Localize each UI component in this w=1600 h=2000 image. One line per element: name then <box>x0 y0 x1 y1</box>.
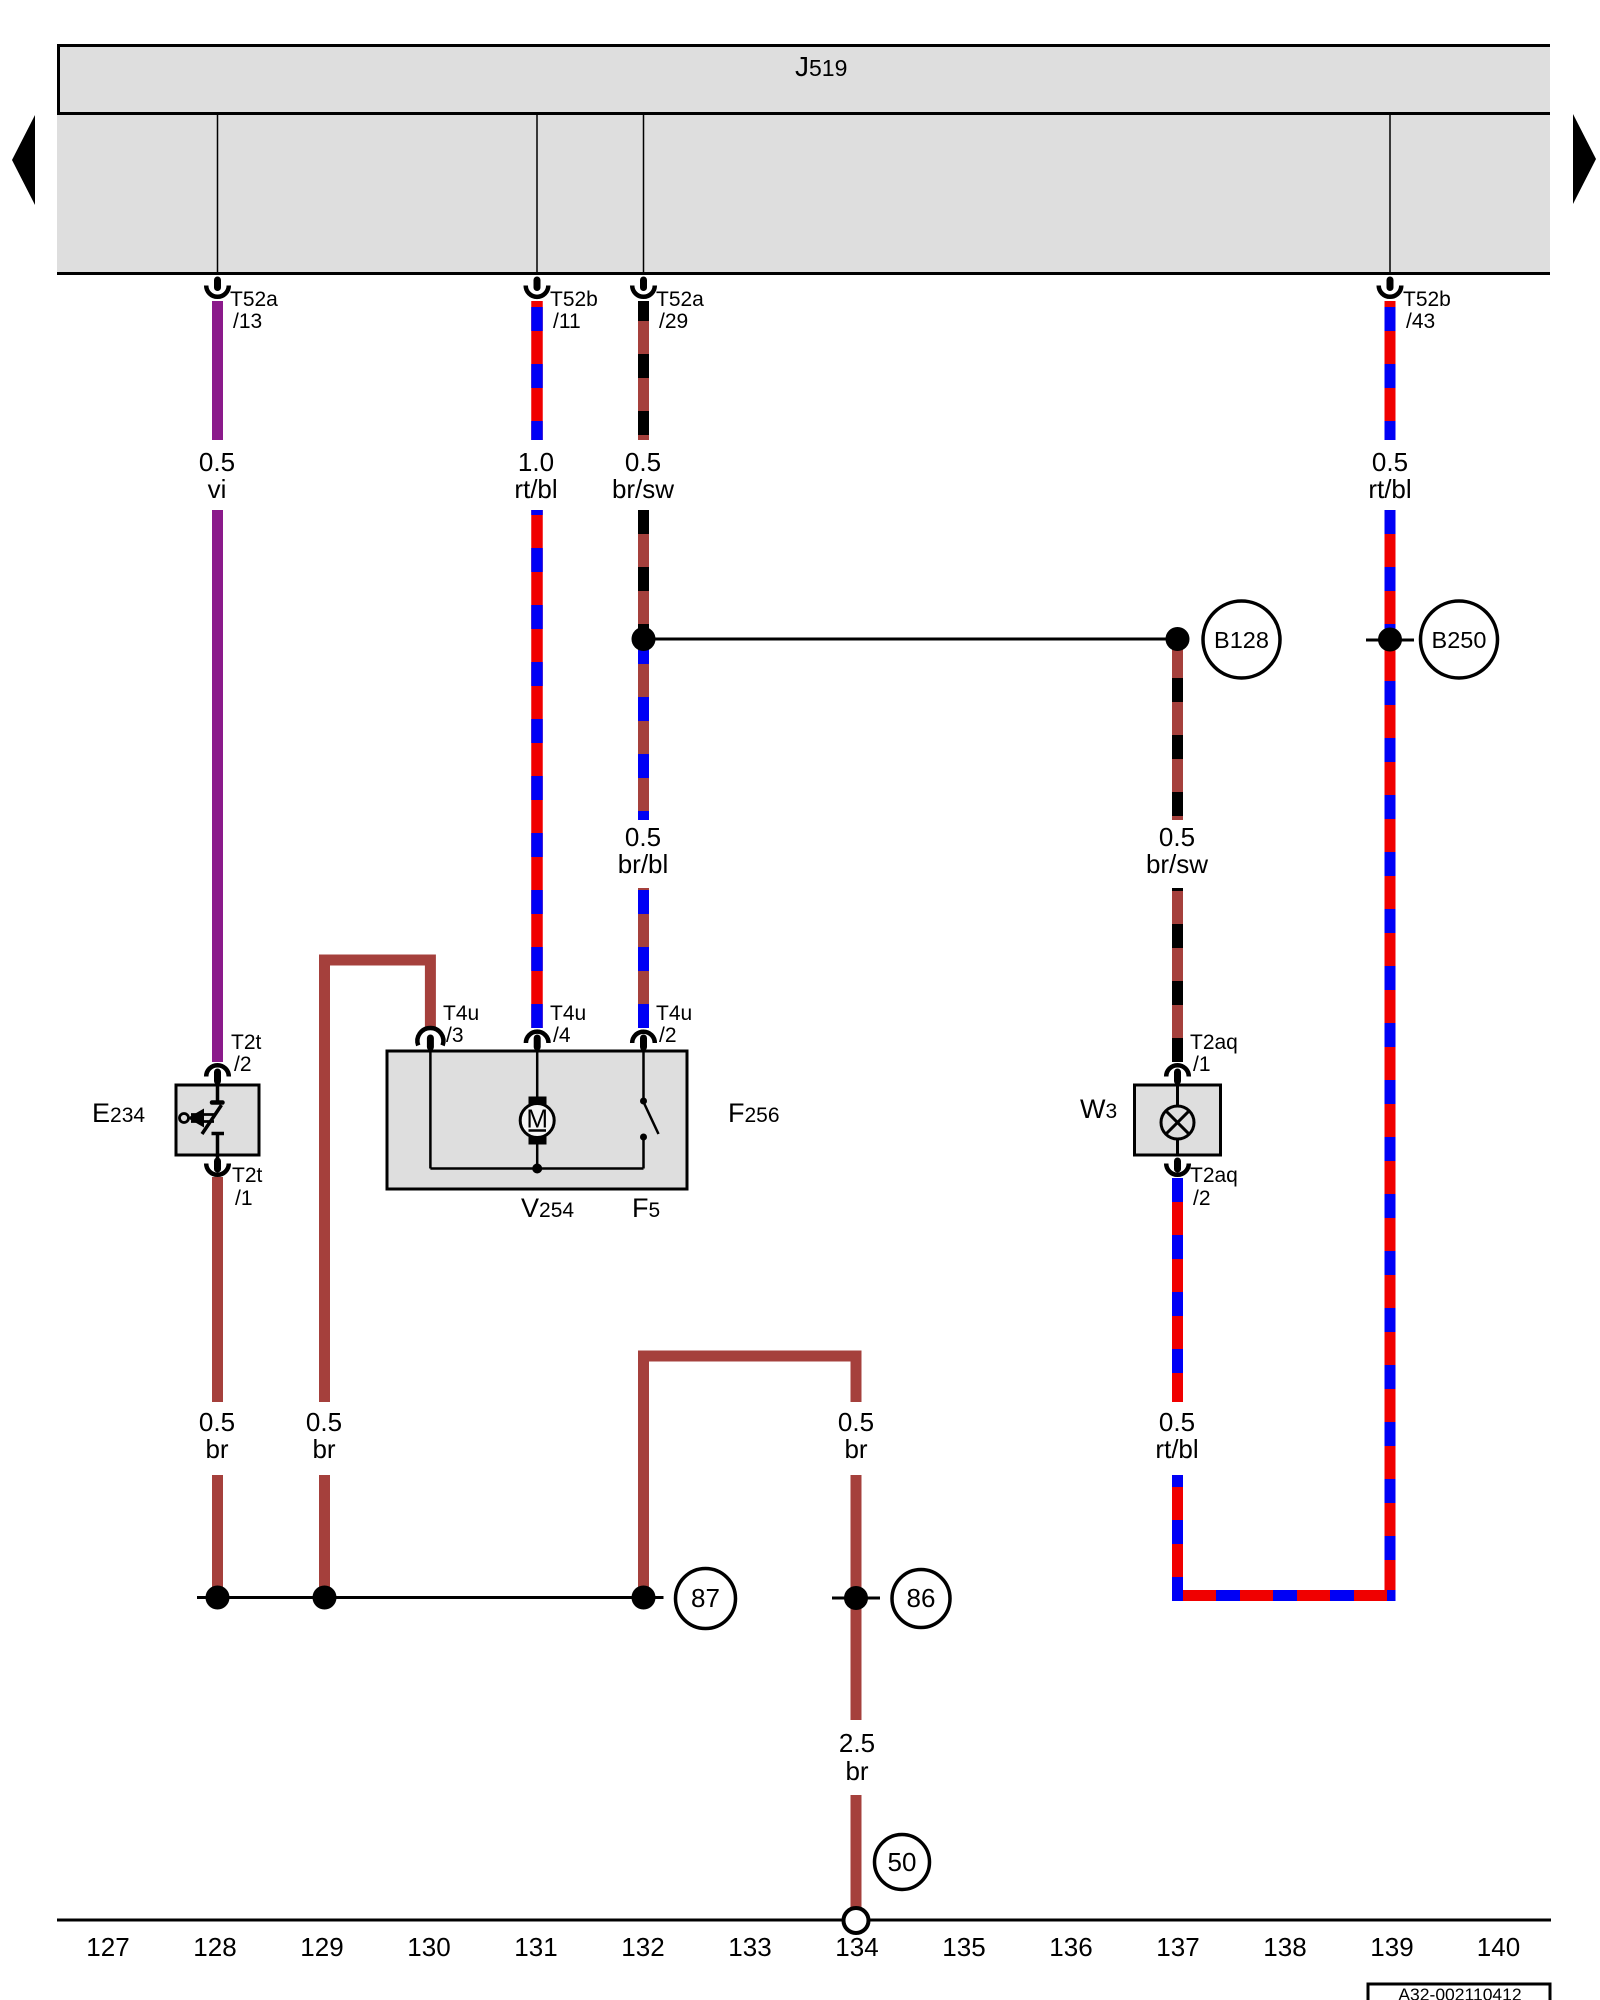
svg-text:T52b: T52b <box>550 288 598 311</box>
svg-text:F5: F5 <box>632 1193 660 1223</box>
wire 0.5 br/bl upper segment below junction <box>638 640 649 820</box>
svg-text:W3: W3 <box>1080 1094 1117 1124</box>
wire 0.5 vi upper segment <box>212 301 223 440</box>
coordinate scale numbers <box>86 1932 1520 1962</box>
svg-text:rt/bl: rt/bl <box>1155 1434 1198 1464</box>
pump V254 / switch F5 box F256 <box>387 1051 687 1189</box>
svg-text:/11: /11 <box>553 310 581 333</box>
svg-text:1.0: 1.0 <box>518 447 554 477</box>
connector T4u/4 <box>526 1002 586 1051</box>
connector T52a pin 13 <box>206 277 278 334</box>
wire 0.5 br/sw upper segment <box>638 301 649 440</box>
label 0.5 br/bl <box>618 822 669 879</box>
svg-text:129: 129 <box>300 1932 343 1962</box>
svg-text:T52b: T52b <box>1403 288 1451 311</box>
svg-text:0.5: 0.5 <box>1372 447 1408 477</box>
junction dot node 86 <box>844 1586 868 1610</box>
wire 0.5 br U from ground line col132 to col134 <box>644 1356 857 1598</box>
wire 0.5 vi lower segment <box>212 510 223 1062</box>
wire 0.5 br/sw lower segment to node B128 <box>638 510 649 638</box>
node line B128 <box>644 638 1178 641</box>
internal wire from pin 4 to motor <box>536 1051 539 1097</box>
wire 1.0 rt/bl lower segment <box>531 510 543 1028</box>
junction at node B250 <box>1378 628 1402 652</box>
svg-text:T4u: T4u <box>550 1002 586 1025</box>
motor V254 symbol <box>520 1097 554 1169</box>
wire 0.5 rt/bl right upper segment <box>1385 301 1396 440</box>
label 0.5 rt/bl right <box>1368 447 1411 504</box>
label 0.5 vi <box>199 447 235 504</box>
svg-text:87: 87 <box>691 1583 720 1613</box>
svg-text:135: 135 <box>942 1932 985 1962</box>
switch E234 connector T2t/2 <box>206 1031 261 1085</box>
svg-text:130: 130 <box>407 1932 450 1962</box>
svg-text:/1: /1 <box>1193 1053 1211 1076</box>
connector T4u/3 <box>417 1002 479 1051</box>
svg-text:V254: V254 <box>521 1193 574 1223</box>
svg-text:E234: E234 <box>92 1098 145 1128</box>
svg-text:br: br <box>844 1434 867 1464</box>
svg-text:T52a: T52a <box>230 288 278 311</box>
svg-text:T4u: T4u <box>656 1002 692 1025</box>
svg-text:/43: /43 <box>1406 310 1435 333</box>
svg-text:138: 138 <box>1263 1932 1306 1962</box>
svg-text:T4u: T4u <box>443 1002 479 1025</box>
switch E234 connector T2t/1 <box>206 1158 262 1211</box>
label 0.5 br col128 <box>199 1407 235 1464</box>
switch E234 internal symbol <box>180 1085 225 1160</box>
node B250 <box>1421 601 1498 678</box>
wire 1.0 rt/bl upper segment <box>531 301 543 440</box>
svg-text:139: 139 <box>1370 1932 1413 1962</box>
svg-text:M: M <box>526 1104 548 1134</box>
drawing number box A32-002110412 <box>1368 1984 1550 2000</box>
svg-text:F256: F256 <box>728 1098 780 1128</box>
junction dot col128 <box>206 1586 230 1610</box>
svg-text:134: 134 <box>835 1932 878 1962</box>
label 0.5 br col129 <box>306 1407 342 1464</box>
label J519 <box>795 51 847 82</box>
junction at col 132 node B128 line <box>632 627 656 651</box>
svg-text:136: 136 <box>1049 1932 1092 1962</box>
label 0.5 br col134 <box>838 1407 874 1464</box>
label 1.0 rt/bl <box>514 447 557 504</box>
internal bottom wire <box>430 1167 643 1170</box>
wire 0.5 br/bl lower segment to T4u/2 <box>638 888 649 1028</box>
svg-text:br: br <box>205 1434 228 1464</box>
svg-text:0.5: 0.5 <box>625 447 661 477</box>
wire 0.5 br/sw lower segment to T2aq/1 <box>1172 888 1183 1062</box>
svg-text:133: 133 <box>728 1932 771 1962</box>
svg-text:140: 140 <box>1477 1932 1520 1962</box>
svg-text:0.5: 0.5 <box>199 447 235 477</box>
control unit J519 (onboard supply control unit bus bar) <box>57 44 1550 275</box>
svg-text:J519: J519 <box>795 51 847 82</box>
svg-text:B128: B128 <box>1214 627 1269 653</box>
svg-text:131: 131 <box>514 1932 557 1962</box>
switch F5 symbol <box>640 1051 659 1169</box>
connector T52a pin 29 <box>632 277 704 334</box>
wire 0.5 br col134 lower <box>851 1475 862 1720</box>
svg-text:0.5: 0.5 <box>838 1407 874 1437</box>
internal junction at motor <box>532 1164 542 1174</box>
svg-text:A32-002110412: A32-002110412 <box>1398 1985 1521 2000</box>
svg-text:br/sw: br/sw <box>1146 849 1208 879</box>
wire 0.5 rt/bl right long segment <box>1385 510 1396 1590</box>
connector T4u/2 <box>632 1002 692 1051</box>
ground node 87 <box>676 1569 736 1629</box>
svg-text:T2t: T2t <box>232 1164 263 1187</box>
connector T52b pin 43 <box>1379 277 1451 334</box>
lamp W3 symbol <box>1161 1085 1194 1155</box>
node 86 stub line <box>832 1597 880 1600</box>
svg-text:0.5: 0.5 <box>306 1407 342 1437</box>
svg-text:rt/bl: rt/bl <box>514 474 557 504</box>
svg-text:2.5: 2.5 <box>839 1728 875 1758</box>
internal wire from pin 3 <box>429 1051 432 1169</box>
svg-text:T2aq: T2aq <box>1190 1164 1238 1187</box>
svg-text:0.5: 0.5 <box>625 822 661 852</box>
svg-text:/1: /1 <box>235 1187 253 1210</box>
bus bar stub wires inside J519 <box>218 115 1391 274</box>
svg-text:0.5: 0.5 <box>199 1407 235 1437</box>
svg-text:br/bl: br/bl <box>618 849 669 879</box>
junction at col 137 node B128 line <box>1166 627 1190 651</box>
label 2.5 br <box>839 1728 875 1786</box>
svg-text:T2t: T2t <box>231 1031 262 1054</box>
svg-text:0.5: 0.5 <box>1159 822 1195 852</box>
svg-text:137: 137 <box>1156 1932 1199 1962</box>
label 0.5 br/sw <box>612 447 674 504</box>
svg-text:rt/bl: rt/bl <box>1368 474 1411 504</box>
svg-text:50: 50 <box>888 1847 917 1877</box>
node 50 <box>875 1835 930 1890</box>
left continuation arrow <box>12 115 35 205</box>
bottom coordinate line <box>57 1919 1551 1922</box>
svg-text:127: 127 <box>86 1932 129 1962</box>
label 0.5 rt/bl lower <box>1155 1407 1198 1464</box>
svg-text:T52a: T52a <box>656 288 704 311</box>
svg-text:br: br <box>312 1434 335 1464</box>
svg-text:/4: /4 <box>553 1024 571 1047</box>
svg-text:/29: /29 <box>659 310 688 333</box>
right continuation arrow <box>1573 114 1596 204</box>
junction dot col132 <box>632 1586 656 1610</box>
label 0.5 br/sw mid <box>1146 822 1208 879</box>
svg-text:86: 86 <box>907 1583 936 1613</box>
wire 0.5 br from E234 down, upper part <box>212 1177 223 1402</box>
connector T52b pin 11 <box>526 277 598 334</box>
node B250 stub line <box>1366 639 1414 642</box>
node 86 <box>892 1570 950 1628</box>
svg-text:br/sw: br/sw <box>612 474 674 504</box>
junction dot col129 <box>313 1586 337 1610</box>
svg-text:/3: /3 <box>446 1024 464 1047</box>
svg-text:B250: B250 <box>1432 627 1487 653</box>
wire 0.5 br col129 lower <box>319 1475 330 1598</box>
wire 2.5 br lower segment <box>851 1795 862 1908</box>
wire 0.5 rt/bl from W3, lower U segment <box>1178 1475 1396 1596</box>
svg-text:/2: /2 <box>234 1053 252 1076</box>
svg-text:0.5: 0.5 <box>1159 1407 1195 1437</box>
wire 0.5 br col128 lower <box>212 1475 223 1598</box>
node B128 <box>1203 601 1280 678</box>
svg-text:128: 128 <box>193 1932 236 1962</box>
wire 0.5 br/sw from B128 node down <box>1172 640 1183 820</box>
svg-text:vi: vi <box>208 474 227 504</box>
svg-text:T2aq: T2aq <box>1190 1031 1238 1054</box>
svg-text:/13: /13 <box>233 310 262 333</box>
svg-text:br: br <box>845 1756 868 1786</box>
label E234 <box>92 1098 145 1128</box>
lamp W3 connector T2aq/2 <box>1166 1158 1238 1211</box>
ground terminal symbol <box>844 1908 869 1933</box>
svg-text:/2: /2 <box>659 1024 677 1047</box>
svg-text:132: 132 <box>621 1932 664 1962</box>
ground node line 87 <box>197 1596 664 1599</box>
wire 0.5 br elbow from col129 to T4u/3 <box>325 960 431 1402</box>
lamp W3 connector T2aq/1 <box>1166 1031 1238 1085</box>
switch E234 box <box>176 1085 259 1155</box>
wire 0.5 rt/bl from W3, upper segment <box>1172 1178 1183 1402</box>
lamp W3 box <box>1135 1085 1221 1155</box>
svg-text:/2: /2 <box>1193 1187 1211 1210</box>
